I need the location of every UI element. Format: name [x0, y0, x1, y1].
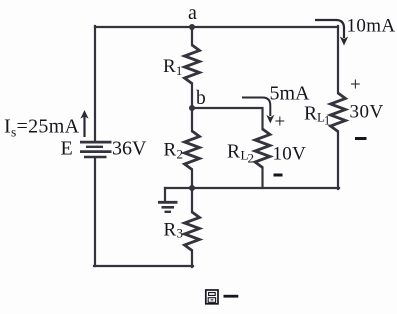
wire node b to RL2: [192, 108, 263, 129]
svg-text:10V: 10V: [273, 144, 307, 165]
svg-text:1: 1: [176, 64, 182, 78]
wire right vertical lower: [337, 132, 339, 190]
wire top (a to corners): [95, 26, 338, 28]
svg-text:R: R: [163, 56, 176, 77]
svg-text:+: +: [275, 112, 286, 133]
wire middle horizontal (ground to right branch): [165, 187, 339, 189]
svg-text:10mA: 10mA: [347, 16, 396, 37]
svg-text:1: 1: [324, 114, 330, 128]
svg-text:36V: 36V: [112, 138, 147, 160]
svg-text:R: R: [164, 140, 177, 161]
junction dot R2/R3/ground: [189, 185, 195, 191]
svg-text:2: 2: [248, 151, 255, 166]
label minus RL1: [355, 137, 367, 140]
caption 圖一 (Figure 1) drawn as strokes: [206, 290, 239, 304]
wire middle vertical segment R2-junction-R3: [191, 170, 193, 213]
svg-text:a: a: [188, 2, 197, 24]
label minus RL2: [274, 174, 283, 177]
svg-text:30V: 30V: [350, 102, 384, 123]
svg-text:R: R: [304, 104, 317, 125]
wire ground stub: [164, 188, 166, 201]
svg-text:b: b: [196, 88, 206, 109]
resistor RL2: [255, 129, 270, 168]
wire middle vertical segment R1-b-R2: [191, 84, 193, 132]
ground symbol: [158, 202, 178, 212]
arrow 5mA (hook down): [242, 98, 274, 124]
resistor R2: [185, 131, 200, 170]
svg-text:5mA: 5mA: [270, 83, 311, 105]
wire bottom: [94, 265, 193, 267]
svg-text:3: 3: [177, 226, 184, 241]
svg-text:Is=25mA: Is=25mA: [4, 116, 80, 140]
wire right vertical upper: [337, 26, 339, 93]
resistor R3: [185, 212, 200, 251]
wire RL2 bottom lead: [261, 168, 263, 189]
arrow Is current (up): [80, 110, 88, 137]
wire middle vertical segment a-R1: [191, 26, 193, 45]
resistor R1: [185, 45, 200, 84]
node a junction dot: [189, 24, 195, 30]
battery E plates: [80, 142, 112, 157]
svg-text:R: R: [164, 220, 177, 241]
svg-text:+: +: [350, 75, 361, 96]
svg-text:E: E: [61, 138, 73, 160]
resistor RL1: [331, 93, 346, 132]
node b junction dot: [189, 105, 195, 111]
arrow 10mA (hook down): [315, 20, 348, 46]
wire left vertical lower: [94, 158, 96, 266]
svg-text:R: R: [227, 142, 240, 163]
wire left vertical upper: [94, 26, 96, 140]
wire middle vertical segment R3-bottom: [191, 251, 193, 268]
svg-text:2: 2: [177, 147, 184, 162]
